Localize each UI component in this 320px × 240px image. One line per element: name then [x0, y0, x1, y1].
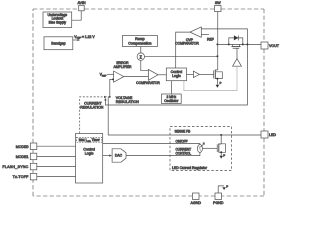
pin MODE0 [16, 143, 37, 150]
svg-text:Logic: Logic [172, 74, 181, 78]
wire main VOUT rail [217, 43, 261, 45]
block U6 2 MHz Oscillator [162, 94, 182, 104]
svg-text:REGULATION: REGULATION [80, 106, 104, 110]
svg-text:Control: Control [83, 147, 95, 151]
wire control logic to oscillator [171, 81, 173, 94]
op-amp gate driver buffer [193, 71, 199, 78]
svg-text:LED: LED [269, 133, 276, 137]
block U7 mode control logic box [76, 134, 103, 184]
junction sense FET tap [220, 134, 222, 136]
wire buffer to power FET gate [199, 73, 213, 75]
svg-text:Ramp: Ramp [135, 37, 145, 41]
svg-text:Control: Control [171, 70, 183, 74]
summer node sigma [137, 53, 144, 60]
op-amp OVP comparator [175, 27, 201, 45]
junction dots on VOUT rail [216, 43, 218, 45]
svg-text:Bias Supply: Bias Supply [49, 21, 67, 25]
wire OVP sense input from VOUT [201, 29, 247, 45]
pin Tx-TOFF [13, 173, 37, 180]
wire control logic to Q2 driver (gray) [184, 66, 237, 90]
svg-text:Oscillator: Oscillator [164, 99, 179, 103]
current source U9 controlled sink [197, 142, 204, 152]
wire summer to comparator plus input [141, 60, 149, 70]
ground P net below Q3 [219, 153, 225, 158]
node REF input stub [201, 35, 213, 42]
svg-text:Lockout: Lockout [52, 17, 64, 21]
svg-text:COMPARATOR: COMPARATOR [136, 81, 160, 85]
wire error amp output to comparator minus input [124, 76, 149, 78]
svg-text:SENSE FB: SENSE FB [175, 130, 191, 134]
wire logic to DAC with arrow [103, 154, 112, 156]
junction on SW line [216, 55, 218, 57]
svg-text:Σ: Σ [140, 54, 143, 59]
pin AVIN [77, 1, 86, 11]
svg-text:DAC: DAC [115, 154, 123, 158]
svg-text:Compensation: Compensation [128, 41, 151, 45]
transistor Q2 PMOS disconnect switch [232, 44, 241, 58]
svg-text:Tx-TOFF: Tx-TOFF [13, 175, 30, 179]
svg-text:AGND: AGND [191, 201, 202, 205]
label CURRENT REGULATION [80, 102, 104, 110]
wire sense feedback net (error amp input to LED pin) [108, 79, 261, 136]
wire ramp comp to summer [140, 47, 142, 53]
transistor Q1 power NMOS [214, 70, 223, 85]
svg-text:Undervoltage: Undervoltage [48, 13, 68, 17]
pin VOUT [261, 42, 280, 49]
wire comparator output to control logic [158, 74, 166, 76]
wire dashed current regulation path [80, 96, 107, 134]
svg-text:VOLTAGE: VOLTAGE [116, 96, 133, 100]
diode D1 branch [229, 35, 243, 44]
wire MODE1 to logic [37, 155, 76, 157]
wire MODE0 to logic [37, 145, 76, 147]
svg-text:COMPARATOR: COMPARATOR [175, 41, 199, 45]
block U2 Bandgap [44, 37, 73, 50]
IC boundary dashed border [33, 9, 264, 196]
svg-text:ON/OFF: ON/OFF [176, 139, 188, 143]
wire control logic to gate buffer [187, 73, 194, 75]
op-amp gate driver for Q2 [233, 59, 242, 67]
net VREF label at error amplifier [100, 73, 114, 78]
block U3 Ramp Compensation [122, 36, 157, 47]
pin AGND [191, 193, 202, 205]
svg-text:P: P [223, 153, 225, 157]
svg-text:PGND: PGND [213, 201, 224, 205]
ground P net below Q1 [216, 81, 222, 88]
wire Tx-TOFF to logic [37, 176, 76, 178]
label VOLTAGE REGULATION [116, 96, 140, 104]
svg-text:Logic: Logic [85, 151, 94, 155]
svg-text:P: P [226, 185, 228, 189]
wire FLASH_SYNC to logic [37, 166, 76, 168]
svg-text:REF: REF [207, 38, 214, 42]
wire OVP output to control logic [176, 32, 190, 68]
svg-text:REGULATION: REGULATION [116, 100, 140, 104]
block LED current regulator dashed box [170, 127, 232, 171]
net VREF output arrow of bandgap [73, 35, 96, 41]
svg-text:MODE1: MODE1 [16, 155, 29, 159]
wire current source to sense FET gate [203, 147, 218, 149]
wire PGND to net P [218, 185, 228, 194]
svg-text:CONTROL: CONTROL [176, 151, 192, 155]
svg-text:P: P [220, 81, 222, 85]
svg-text:CURRENT: CURRENT [84, 102, 102, 106]
wire SW current sense to summer [145, 55, 218, 57]
pin FLASH_SYNC [2, 163, 36, 170]
svg-text:2 MHz: 2 MHz [166, 95, 176, 99]
label CURRENT CONTROL [176, 148, 192, 156]
svg-text:Bandgap: Bandgap [51, 42, 65, 46]
comparator U4 [136, 69, 160, 85]
wire AVIN to UVLO [72, 11, 82, 20]
wire voltage feedback from VOUT [104, 44, 247, 105]
block U8 DAC [112, 149, 126, 162]
svg-text:MODE0: MODE0 [16, 145, 29, 149]
wire ON/OFF from logic to current source [103, 144, 200, 145]
pin MODE1 [16, 153, 37, 160]
block U5 Control Logic [166, 68, 186, 81]
wire SW vertical rail [217, 12, 219, 70]
svg-text:SW: SW [215, 1, 221, 5]
svg-text:LED Current Regulator: LED Current Regulator [172, 166, 208, 170]
svg-text:VOUT: VOUT [269, 44, 280, 48]
svg-text:AMPLIFIER: AMPLIFIER [114, 65, 132, 69]
transistor Q3 LED current sink FET [217, 135, 225, 156]
pin PGND [213, 193, 224, 205]
pin LED [261, 131, 276, 138]
pin SW [215, 1, 222, 12]
block U1 Undervoltage Lockout Bias Supply [43, 12, 72, 28]
svg-text:FLASH_SYNC: FLASH_SYNC [2, 165, 28, 169]
op-amp error amplifier [114, 61, 132, 82]
wire DAC output to current source [126, 153, 200, 156]
svg-text:AVIN: AVIN [77, 1, 86, 5]
